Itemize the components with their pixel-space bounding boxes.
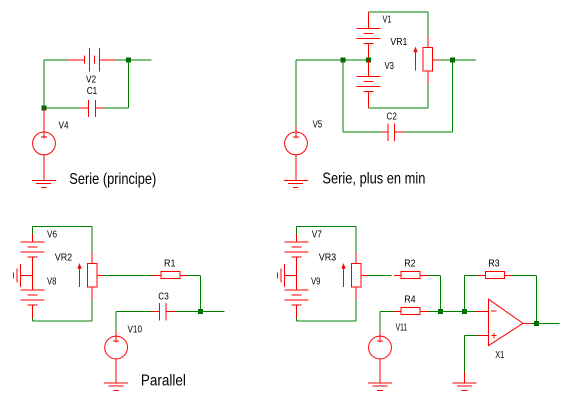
pot VR2 arrow xyxy=(77,263,81,287)
battery V3 bottom lead xyxy=(368,91,370,108)
resistor R3 left lead xyxy=(477,275,485,277)
source V11 xyxy=(369,336,392,359)
battery V2 left lead xyxy=(68,59,84,61)
wire node to op-amp xyxy=(465,311,475,313)
wire output stub xyxy=(537,322,560,324)
capacitor C3 left lead xyxy=(152,311,160,313)
node output junction xyxy=(450,58,455,63)
svg-text:VR2: VR2 xyxy=(55,252,73,263)
ground under V5 xyxy=(284,180,308,187)
pot VR1 top lead xyxy=(427,36,429,47)
wire output stub xyxy=(200,311,224,313)
resistor R2 xyxy=(401,271,420,278)
svg-text:V1: V1 xyxy=(383,15,392,26)
op-amp plus input lead xyxy=(477,334,489,336)
svg-text:VR1: VR1 xyxy=(390,37,407,48)
node top-right junction xyxy=(126,58,131,63)
wire plus input vertical xyxy=(464,335,466,372)
source V5 xyxy=(285,132,308,155)
pot VR2 body xyxy=(88,264,98,288)
op-amp X1 xyxy=(489,299,523,345)
wire VR2 top vertical xyxy=(91,227,93,253)
svg-text:V7: V7 xyxy=(312,229,322,240)
capacitor C2 xyxy=(388,123,394,141)
battery V8 xyxy=(20,290,44,305)
op-amp output lead xyxy=(523,322,531,324)
wire R3 left horizontal xyxy=(465,275,478,277)
node lower-left junction xyxy=(42,106,47,111)
wire VR3 bottom vertical xyxy=(355,300,357,321)
wire bottom xyxy=(296,320,356,322)
svg-text:R2: R2 xyxy=(404,258,416,269)
wire R3 left vertical xyxy=(464,276,466,312)
node output junction xyxy=(534,321,539,326)
pot VR2 bottom lead xyxy=(91,287,93,300)
resistor R4 right lead xyxy=(420,311,428,313)
wire R1 corner down xyxy=(199,276,201,312)
wire R3 right vertical xyxy=(536,276,538,324)
wire output stub xyxy=(453,59,477,61)
source V11 top lead xyxy=(379,331,381,337)
pot VR1 body xyxy=(423,48,433,72)
wire R3 to corner xyxy=(512,275,537,277)
wire VR3 top vertical xyxy=(355,227,357,253)
pot VR3 wiper lead xyxy=(361,275,368,277)
capacitor C1 xyxy=(89,100,96,117)
wire C1 to right vertical xyxy=(104,107,129,109)
pot VR3 body xyxy=(352,264,362,288)
battery V2 xyxy=(84,48,99,71)
wire R2 corner down xyxy=(439,276,441,312)
resistor R2 right lead xyxy=(420,275,429,277)
battery V2 right lead xyxy=(99,59,115,61)
resistor R4 xyxy=(401,307,420,314)
svg-text:V2: V2 xyxy=(86,74,97,85)
wire C3 left horizontal xyxy=(116,311,152,313)
pot VR3 top lead xyxy=(355,252,357,263)
resistor R1 right lead xyxy=(180,275,188,277)
source V5 top lead xyxy=(295,125,297,132)
wire top rail right vertical xyxy=(427,12,429,36)
wire V6 to V8 lead xyxy=(31,257,33,290)
wire wiper to node xyxy=(439,59,453,61)
wire wiper to R2 xyxy=(368,275,392,277)
wire node to node xyxy=(440,311,464,313)
wire battery V2 to node xyxy=(116,59,129,61)
battery V6 xyxy=(20,242,44,257)
pot VR3 arrow xyxy=(341,263,345,287)
wire C2 left horizontal xyxy=(343,131,381,133)
battery V7 xyxy=(284,242,308,257)
wire node to right stub xyxy=(129,59,152,61)
svg-text:Serie, plus en min: Serie, plus en min xyxy=(322,170,425,187)
wire V10 vertical xyxy=(115,312,117,331)
node mid rail left junction xyxy=(341,58,346,63)
wire VR2 bottom vertical xyxy=(91,300,93,321)
wire bottom xyxy=(32,320,92,322)
wire V11 corner horizontal xyxy=(380,311,393,313)
svg-text:C3: C3 xyxy=(158,292,169,303)
capacitor C2 left lead xyxy=(381,131,388,133)
ground under V4 xyxy=(32,180,56,187)
wire chain top vertical xyxy=(295,227,297,234)
battery V1 xyxy=(357,29,381,44)
wire R1 to corner xyxy=(188,275,200,277)
battery V8 bottom lead xyxy=(31,305,33,318)
ground lead op-amp xyxy=(464,372,466,383)
svg-text:V10: V10 xyxy=(128,325,143,336)
wire top xyxy=(296,226,356,228)
wire chain top vertical xyxy=(31,227,33,234)
svg-text:V11: V11 xyxy=(396,322,408,333)
ground tee (rotated) xyxy=(277,264,284,287)
node R2/R4 junction xyxy=(438,309,443,314)
wire top rail xyxy=(369,11,429,13)
svg-text:R1: R1 xyxy=(164,258,176,269)
ground tee (rotated) xyxy=(13,264,20,287)
svg-text:V6: V6 xyxy=(47,229,57,240)
wire lower-left to C1 xyxy=(44,107,80,109)
capacitor C3 right lead xyxy=(166,311,176,313)
pot VR1 bottom lead xyxy=(427,71,429,84)
wire V7 to V9 lead xyxy=(295,257,297,290)
wire output to node xyxy=(531,322,537,324)
wire wiper to R1 xyxy=(104,275,153,277)
wire V11 vertical xyxy=(379,312,381,331)
svg-text:R3: R3 xyxy=(488,258,500,269)
source V10 top lead xyxy=(115,331,117,337)
wire mid rail xyxy=(296,59,369,61)
node mid rail right junction xyxy=(366,58,371,63)
battery V9 bottom lead xyxy=(295,305,297,318)
wire top-left to battery V2 xyxy=(44,59,68,61)
capacitor C1 left lead xyxy=(80,107,89,109)
svg-text:Serie (principe): Serie (principe) xyxy=(69,171,156,188)
resistor R3 right lead xyxy=(505,275,513,277)
resistor R3 xyxy=(486,271,505,278)
battery V7 top lead xyxy=(295,234,297,242)
svg-text:V9: V9 xyxy=(311,277,321,288)
ground tee lead xyxy=(20,274,32,276)
svg-text:V3: V3 xyxy=(385,61,395,72)
ground under V10 xyxy=(104,383,128,390)
source V11 bottom lead xyxy=(379,359,381,383)
pot VR3 bottom lead xyxy=(355,287,357,300)
ground under op-amp xyxy=(453,383,477,390)
node inverting input junction xyxy=(462,309,467,314)
wire output down to C2 xyxy=(452,60,454,132)
source V4 xyxy=(33,132,56,155)
battery V1 bottom lead xyxy=(368,44,370,61)
ground tee lead xyxy=(284,274,296,276)
svg-text:V8: V8 xyxy=(47,277,57,288)
resistor R2 left lead xyxy=(394,275,401,277)
svg-text:V4: V4 xyxy=(59,121,69,132)
resistor R1 xyxy=(161,271,180,278)
wire chain bottom vertical xyxy=(31,318,33,321)
capacitor C3 xyxy=(160,303,167,321)
battery V6 top lead xyxy=(31,234,33,242)
capacitor C2 right lead xyxy=(394,131,404,133)
pot VR1 wiper lead xyxy=(433,59,440,61)
wire VR1 bottom vertical xyxy=(427,84,429,108)
capacitor C1 right lead xyxy=(95,107,104,109)
ground under V11 xyxy=(368,383,392,390)
svg-text:X1: X1 xyxy=(495,350,504,361)
node output junction xyxy=(198,309,203,314)
source V10 xyxy=(105,336,128,359)
op-amp minus input lead xyxy=(475,311,489,313)
pot VR2 wiper lead xyxy=(97,275,104,277)
svg-text:Parallel: Parallel xyxy=(141,372,186,389)
battery V3 top lead xyxy=(368,60,370,76)
wire right vertical xyxy=(128,60,130,108)
resistor R4 left lead xyxy=(393,311,401,313)
source V4 lead xyxy=(43,108,45,132)
wire left vertical xyxy=(43,60,45,108)
svg-text:R4: R4 xyxy=(404,294,416,305)
resistor R1 left lead xyxy=(152,275,161,277)
pot VR1 arrow xyxy=(413,47,417,71)
battery V9 xyxy=(284,290,308,305)
svg-text:C2: C2 xyxy=(387,111,398,122)
wire V3 to VR1 bottom xyxy=(369,107,429,109)
source V4 bottom lead xyxy=(43,155,45,181)
svg-text:C1: C1 xyxy=(87,86,98,97)
wire V5 vertical xyxy=(295,60,297,125)
battery V3 xyxy=(357,76,381,91)
wire R4 to node xyxy=(428,311,440,313)
svg-text:VR3: VR3 xyxy=(319,252,337,263)
svg-text:V5: V5 xyxy=(313,119,323,130)
wire C2 left vertical xyxy=(342,60,344,132)
wire R2 to corner xyxy=(429,275,441,277)
source V5 bottom lead xyxy=(295,155,297,181)
wire C3 to node xyxy=(176,311,201,313)
wire top xyxy=(32,226,92,228)
source V10 bottom lead xyxy=(115,359,117,383)
wire plus input horizontal xyxy=(465,334,478,336)
wire chain bottom vertical xyxy=(295,318,297,321)
battery V1 top lead xyxy=(368,12,370,29)
pot VR2 top lead xyxy=(91,252,93,263)
wire C2 to output vertical xyxy=(404,131,453,133)
